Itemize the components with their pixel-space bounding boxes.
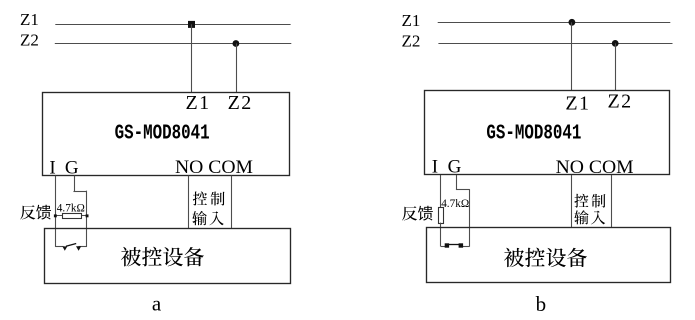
svg-text:Z2: Z2 [608, 91, 633, 113]
svg-text:4.7kΩ: 4.7kΩ [57, 201, 85, 215]
svg-text:Z1: Z1 [565, 92, 590, 114]
svg-text:Z2: Z2 [402, 31, 421, 50]
svg-text:b: b [536, 292, 547, 316]
svg-text:Z2: Z2 [228, 92, 253, 114]
svg-text:Z1: Z1 [402, 11, 421, 30]
svg-text:G: G [448, 157, 462, 178]
svg-text:NO COM: NO COM [556, 157, 634, 178]
svg-text:Z1: Z1 [186, 92, 211, 114]
svg-text:GS-MOD8041: GS-MOD8041 [115, 121, 210, 145]
svg-text:G: G [65, 157, 79, 178]
svg-text:I: I [49, 157, 55, 178]
svg-text:a: a [152, 292, 162, 316]
svg-text:Z1: Z1 [20, 10, 39, 29]
svg-text:I: I [432, 157, 438, 178]
svg-text:NO COM: NO COM [175, 157, 253, 178]
svg-text:Z2: Z2 [20, 31, 39, 50]
svg-text:GS-MOD8041: GS-MOD8041 [486, 121, 581, 145]
svg-text:4.7kΩ: 4.7kΩ [441, 196, 469, 210]
